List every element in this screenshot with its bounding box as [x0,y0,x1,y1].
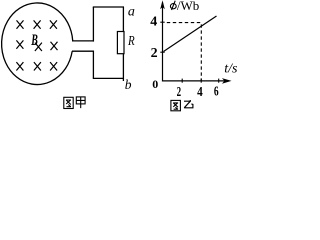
wire loop bottom [93,77,124,79]
wire loop top [93,6,124,8]
svg-text:a: a [128,4,135,19]
svg-text:/Wb: /Wb [177,0,199,13]
wire loop right upper segment (node a) [122,7,124,32]
x tick at 4 [200,79,202,83]
coil L1 (circular magnetic field region) [2,3,73,85]
y tick at 4 [160,21,164,23]
svg-text:R: R [127,33,135,49]
svg-text:b: b [125,77,132,92]
caption 图乙 glyph yi [184,100,193,108]
wire loop right lower segment (node b) [122,54,124,81]
dashed line at phi=4 [167,22,202,24]
field symbol x row3 [16,62,57,70]
svg-text:2: 2 [177,84,182,99]
svg-text:4: 4 [150,15,157,30]
wire loop left lower segment [92,51,94,79]
dashed line at t=4 [200,24,202,80]
x tick at 6 [218,79,220,83]
caption 图甲 glyph jia [76,97,85,108]
caption 图乙 glyph tu [171,100,181,110]
svg-text:4: 4 [197,84,203,99]
y tick at 2 [160,51,164,53]
resistor R [117,32,124,54]
svg-text:B: B [30,31,37,49]
wire top lead coil to loop [72,40,94,42]
graph x-axis [162,80,229,82]
field symbol x row2 [16,40,57,51]
svg-text:t/s: t/s [224,62,238,77]
graph y-axis [162,3,164,82]
svg-text:6: 6 [214,83,219,99]
graph y-axis arrowhead [160,0,165,9]
caption 图甲 glyph tu [64,97,73,108]
graph x-axis arrowhead [222,78,232,84]
y-axis label phi (flux symbol) [170,4,176,9]
wire bottom lead coil to loop [72,50,94,52]
x tick at 2 [181,79,183,83]
flux vs time line [164,16,217,52]
svg-text:2: 2 [151,46,158,61]
wire loop left upper segment [92,7,94,42]
field symbol x row1 [17,20,57,28]
svg-text:0: 0 [152,77,158,91]
